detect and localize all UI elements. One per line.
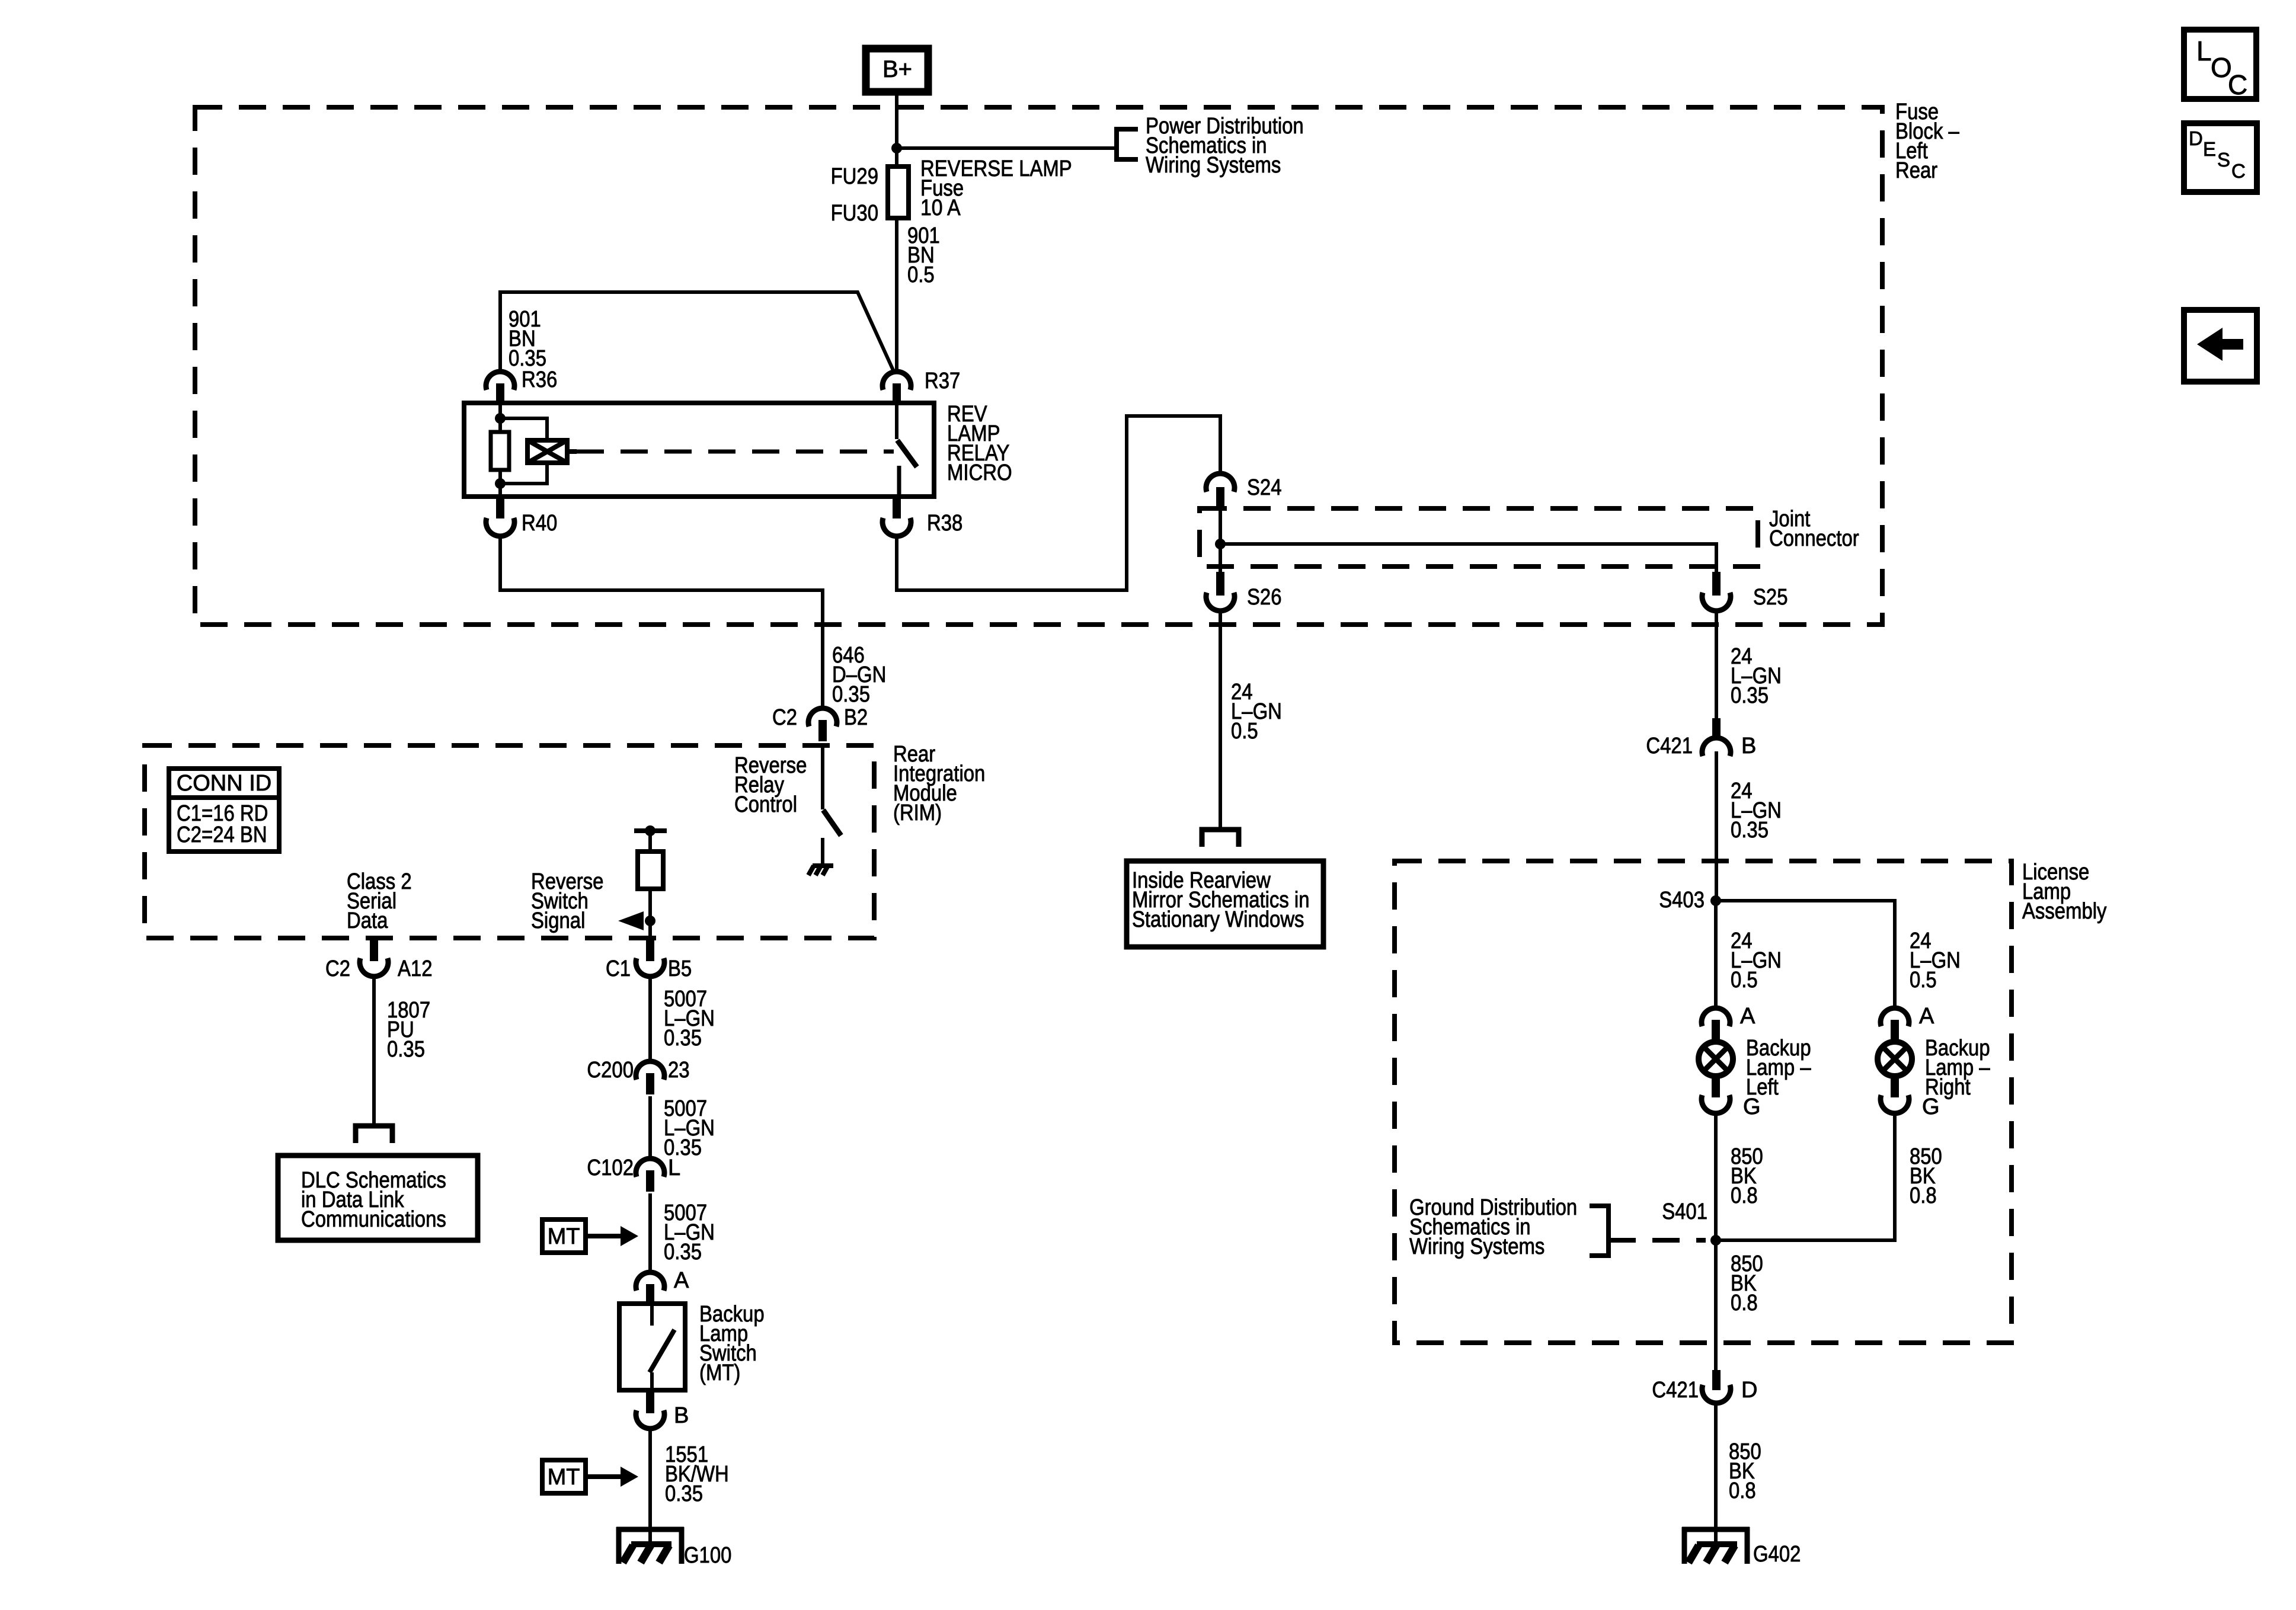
svg-text:0.8: 0.8: [1729, 1478, 1756, 1503]
label: 850 BK 0.8 (to G402): [1729, 1439, 1761, 1503]
goes-to staple (DLC wire): [356, 1126, 392, 1143]
wire S403 to right lamp: [1716, 901, 1895, 1007]
label: Reverse Relay Control: [734, 753, 807, 817]
relay solenoid symbol: [500, 418, 577, 484]
connector B (backup lamp switch): [636, 1390, 689, 1429]
label: Backup Lamp Switch (MT): [699, 1302, 765, 1385]
connector C1/B5: [606, 939, 692, 981]
svg-text:L: L: [2196, 36, 2212, 66]
connector R40: [486, 497, 557, 536]
MT takeout 2: [542, 1460, 638, 1493]
svg-text:G100: G100: [684, 1543, 731, 1568]
wire to Power Distribution callout: [897, 146, 1117, 150]
wire 5007 L-GN 0.35 (C200 to C102): [648, 1096, 652, 1158]
wire R38 to S24: [897, 416, 1220, 590]
svg-text:Communications: Communications: [301, 1207, 446, 1232]
splice connector S25: [1702, 572, 1788, 611]
RIM driver switch blade: [823, 744, 841, 865]
svg-text:MT: MT: [548, 1465, 580, 1490]
svg-text:B: B: [1741, 734, 1756, 758]
svg-text:G: G: [1922, 1094, 1940, 1119]
backup lamp switch box: [619, 1304, 685, 1390]
wire 5007 L-GN 0.35 (C1 to C200): [648, 977, 652, 1061]
svg-text:0.35: 0.35: [664, 1026, 702, 1051]
label: Class 2 Serial Data: [347, 869, 412, 933]
svg-text:C2=24 BN: C2=24 BN: [177, 822, 267, 847]
relay box REV LAMP RELAY MICRO: [464, 402, 1012, 497]
label: 850 BK 0.8 (S401 to C421): [1731, 1251, 1763, 1315]
svg-text:Assembly: Assembly: [2022, 899, 2107, 924]
svg-text:Data: Data: [347, 908, 388, 933]
label: Joint Connector: [1769, 507, 1859, 551]
svg-text:(RIM): (RIM): [893, 801, 942, 825]
node: B+ feed junction: [891, 143, 902, 153]
svg-text:0.8: 0.8: [1731, 1291, 1758, 1315]
label: Backup Lamp - Right: [1925, 1036, 1990, 1100]
connector R36: [486, 367, 557, 405]
wire right lamp G to S401: [1716, 1114, 1895, 1240]
svg-text:Control: Control: [734, 792, 797, 817]
connector C421 pin D: [1652, 1370, 1757, 1403]
label: 24 L-GN 0.5 (left lamp): [1731, 929, 1782, 993]
svg-text:C1: C1: [606, 956, 631, 981]
svg-text:C421: C421: [1646, 734, 1693, 758]
wire 850 BK 0.8 to G402: [1714, 1404, 1718, 1544]
svg-text:S: S: [2217, 149, 2230, 171]
svg-text:FU29: FU29: [831, 164, 878, 189]
power feed B+ terminal: [866, 49, 928, 92]
svg-text:0.35: 0.35: [665, 1481, 703, 1506]
callout box: Inside Rearview Mirror Schematics: [1127, 861, 1323, 947]
svg-text:0.5: 0.5: [1910, 968, 1937, 993]
svg-text:MICRO: MICRO: [947, 460, 1012, 485]
svg-text:S26: S26: [1247, 585, 1282, 610]
svg-text:C2: C2: [772, 705, 797, 730]
RIM pull-up resistor: [634, 825, 667, 939]
svg-text:C2: C2: [325, 956, 350, 981]
wire 850 BK 0.8 S401 to C421 D: [1714, 1240, 1718, 1370]
svg-text:Stationary Windows: Stationary Windows: [1132, 907, 1304, 932]
joint connector dashed box: [1200, 508, 1758, 566]
label: Reverse Switch Signal: [531, 869, 603, 933]
DESC reference icon: [2184, 123, 2257, 192]
svg-text:0.5: 0.5: [1731, 968, 1758, 993]
label: 5007 L-GN 0.35 (3): [664, 1201, 715, 1265]
svg-text:0.8: 0.8: [1910, 1183, 1937, 1208]
fuse block dashed outline (Fuse Block - Left Rear): [195, 107, 1882, 625]
connector A (right lamp): [1881, 1004, 1934, 1041]
goes-to staple (S26 wire): [1202, 830, 1239, 847]
connector A (left lamp): [1702, 1004, 1755, 1041]
svg-text:0.5: 0.5: [907, 263, 935, 287]
label: 850 BK 0.8 (right lamp): [1910, 1144, 1942, 1208]
svg-text:0.35: 0.35: [832, 682, 870, 707]
wire junction to S25: [1220, 544, 1716, 578]
backup lamp right bulb: [1878, 1042, 1912, 1097]
label: 5007 L-GN 0.35 (2): [664, 1096, 715, 1160]
svg-text:S25: S25: [1753, 585, 1788, 610]
svg-text:0.35: 0.35: [664, 1240, 702, 1265]
label: 1551 BK/WH 0.35: [665, 1442, 729, 1506]
svg-text:D: D: [1741, 1378, 1757, 1403]
label: 901 BN 0.35: [509, 307, 546, 371]
svg-text:A12: A12: [398, 956, 433, 981]
svg-text:B2: B2: [844, 705, 868, 730]
RIM internal ground: [808, 866, 833, 875]
svg-text:S24: S24: [1247, 475, 1282, 500]
svg-text:(MT): (MT): [699, 1361, 740, 1385]
svg-text:B+: B+: [882, 56, 912, 82]
svg-text:C: C: [2228, 69, 2247, 100]
label: 24 L-GN 0.35 (above C421): [1731, 644, 1782, 708]
connector C200 pin 23: [587, 1058, 689, 1094]
wire 646 D-GN 0.35 from R40 to RIM C2/B2: [500, 537, 823, 708]
fuse FU29/FU30 REVERSE LAMP Fuse 10 A: [831, 156, 1072, 226]
connector C2/B2 (RIM): [772, 705, 868, 741]
svg-text:D: D: [2189, 127, 2203, 149]
svg-text:0.5: 0.5: [1231, 719, 1258, 744]
svg-text:C421: C421: [1652, 1378, 1699, 1403]
svg-text:R38: R38: [927, 511, 962, 536]
svg-text:R36: R36: [522, 367, 557, 392]
svg-text:Wiring Systems: Wiring Systems: [1146, 153, 1281, 178]
svg-text:R40: R40: [522, 511, 557, 536]
LOC reference icon: [2184, 30, 2256, 100]
svg-text:R37: R37: [925, 369, 960, 393]
label: Ground Distribution Schematics in Wiring Systems: [1409, 1195, 1577, 1259]
relay switch blade: [897, 403, 917, 497]
svg-text:Signal: Signal: [531, 908, 585, 933]
splice connector S26: [1206, 572, 1282, 611]
label: 24 L-GN 0.5: [1231, 680, 1282, 744]
label: Power Distribution Schematics in Wiring Systems: [1146, 114, 1304, 178]
svg-text:A: A: [1919, 1004, 1934, 1029]
svg-text:FU30: FU30: [831, 201, 878, 226]
label: Fuse Block - Left Rear: [1895, 100, 1960, 183]
svg-text:10 A: 10 A: [920, 196, 961, 220]
svg-text:Wiring Systems: Wiring Systems: [1409, 1234, 1544, 1259]
svg-text:0.35: 0.35: [1731, 818, 1769, 843]
wire junction to S26: [1219, 544, 1222, 572]
svg-text:S403: S403: [1659, 888, 1705, 913]
wire 24 L-GN 0.35 S25 to C421 B: [1715, 612, 1718, 729]
svg-text:23: 23: [668, 1058, 690, 1083]
reverse switch signal arrow: [618, 911, 655, 930]
svg-text:A: A: [674, 1268, 689, 1293]
connector R38: [882, 497, 962, 536]
wire B+ to fuse: [895, 95, 898, 167]
node S403: [1659, 888, 1721, 913]
svg-text:Rear: Rear: [1895, 158, 1937, 183]
splice connector S24: [1206, 473, 1282, 508]
svg-text:G: G: [1743, 1094, 1761, 1119]
svg-text:MT: MT: [548, 1224, 580, 1249]
svg-text:B: B: [674, 1403, 689, 1428]
node S401: [1662, 1199, 1721, 1246]
wire 24 L-GN 0.5 from S26: [1219, 612, 1222, 827]
svg-text:0.35: 0.35: [387, 1037, 425, 1062]
relay actuator dashed link: [577, 450, 894, 454]
connector G (left lamp): [1702, 1094, 1761, 1119]
callout box: DLC Schematics in Data Link Communications: [278, 1156, 478, 1240]
wire S403 to left lamp: [1714, 901, 1718, 1007]
svg-text:0.8: 0.8: [1731, 1183, 1758, 1208]
RIM dashed box: [145, 745, 874, 938]
label: License Lamp Assembly: [2022, 860, 2107, 924]
license lamp assembly dashed box: [1395, 861, 2012, 1343]
label: 646 D-GN 0.35: [832, 643, 886, 707]
wire 901 BN 0.35 branch to R36: [500, 292, 894, 373]
svg-text:L: L: [668, 1156, 680, 1180]
label: Backup Lamp - Left: [1746, 1036, 1811, 1100]
svg-text:CONN ID: CONN ID: [177, 771, 271, 796]
wire 24 L-GN 0.35 C421 to S403: [1715, 751, 1718, 901]
label: 1807 PU 0.35: [387, 998, 430, 1062]
svg-text:C102: C102: [587, 1156, 634, 1180]
callout bracket: Ground Distribution: [1590, 1206, 1609, 1256]
relay coil resistor: [491, 403, 509, 497]
wire 1551 BK/WH 0.35: [648, 1429, 652, 1544]
CONN ID table: [169, 769, 279, 852]
svg-text:C200: C200: [587, 1058, 634, 1083]
label: 5007 L-GN 0.35 (1): [664, 987, 715, 1051]
label: Rear Integration Module (RIM): [893, 742, 985, 825]
connector C102 pin L: [587, 1156, 680, 1192]
connector G (right lamp): [1881, 1094, 1940, 1119]
label: 901 BN 0.5: [907, 223, 940, 287]
MT takeout 1: [542, 1219, 638, 1253]
label: 24 L-GN 0.5 (right lamp): [1910, 929, 1961, 993]
svg-text:A: A: [1740, 1004, 1755, 1029]
callout bracket: Power Distribution: [1117, 129, 1138, 159]
svg-text:G402: G402: [1753, 1542, 1801, 1567]
connector A (backup lamp switch): [636, 1268, 689, 1305]
svg-text:C: C: [2231, 160, 2246, 182]
connector C2 pin A12: [325, 939, 433, 981]
ground G100: [616, 1527, 731, 1568]
node: joint connector junction: [1215, 539, 1226, 549]
wire 5007 L-GN 0.35 (C102 to switch): [648, 1193, 652, 1272]
wire left lamp G to S401: [1714, 1114, 1718, 1240]
back arrow icon: [2184, 310, 2257, 382]
svg-text:S401: S401: [1662, 1199, 1707, 1224]
label: 24 L-GN 0.35 (below C421): [1731, 779, 1782, 843]
svg-text:Connector: Connector: [1769, 526, 1859, 551]
connector R37: [882, 369, 960, 405]
svg-text:B5: B5: [668, 956, 692, 981]
wire S24 pin to junction: [1219, 508, 1222, 544]
backup lamp left bulb: [1699, 1042, 1733, 1097]
ground G402: [1682, 1527, 1801, 1567]
svg-text:E: E: [2203, 138, 2216, 160]
label: 850 BK 0.8 (left lamp): [1731, 1144, 1763, 1208]
dashed leader to S401: [1609, 1238, 1706, 1243]
svg-text:0.35: 0.35: [1731, 683, 1769, 708]
wire 901 BN 0.5 fuse to R37: [895, 218, 898, 373]
connector C421 pin B: [1646, 718, 1756, 758]
wire 1807 PU 0.35: [372, 977, 376, 1124]
